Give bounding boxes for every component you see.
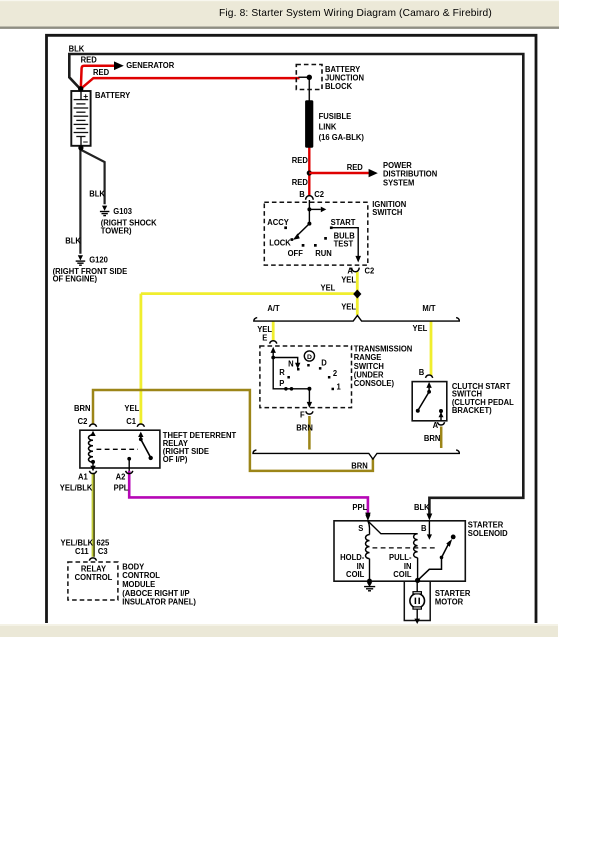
svg-text:RUN: RUN bbox=[315, 249, 332, 258]
svg-text:D: D bbox=[307, 354, 312, 361]
svg-text:(16 GA-BLK): (16 GA-BLK) bbox=[319, 133, 365, 142]
svg-text:G103: G103 bbox=[113, 207, 132, 216]
svg-text:BLK: BLK bbox=[69, 44, 85, 53]
svg-text:YEL/BLK: YEL/BLK bbox=[60, 483, 93, 492]
svg-text:RED: RED bbox=[292, 156, 308, 165]
svg-text:OF ENGINE): OF ENGINE) bbox=[53, 274, 98, 283]
svg-text:LINK: LINK bbox=[319, 122, 337, 131]
svg-text:Fig. 8: Starter System Wiring: Fig. 8: Starter System Wiring Diagram (C… bbox=[219, 8, 492, 19]
svg-text:A2: A2 bbox=[116, 472, 126, 481]
svg-text:S: S bbox=[358, 524, 363, 533]
svg-text:GENERATOR: GENERATOR bbox=[126, 61, 174, 70]
svg-text:YEL: YEL bbox=[341, 275, 356, 284]
svg-text:2: 2 bbox=[333, 369, 338, 378]
svg-text:COIL: COIL bbox=[393, 570, 411, 579]
svg-text:N: N bbox=[288, 359, 294, 368]
svg-text:1: 1 bbox=[336, 382, 341, 391]
svg-text:M/T: M/T bbox=[422, 304, 435, 313]
svg-text:COIL: COIL bbox=[346, 570, 364, 579]
svg-text:BLK: BLK bbox=[89, 189, 105, 198]
svg-text:BRN: BRN bbox=[74, 404, 91, 413]
svg-text:C2: C2 bbox=[364, 266, 374, 275]
svg-text:A1: A1 bbox=[78, 472, 88, 481]
svg-text:C11: C11 bbox=[75, 547, 89, 556]
svg-text:BLK: BLK bbox=[65, 236, 81, 245]
svg-text:RED: RED bbox=[81, 55, 97, 64]
svg-text:BLOCK: BLOCK bbox=[325, 82, 352, 91]
svg-text:ACCY: ACCY bbox=[267, 218, 289, 227]
svg-text:YEL: YEL bbox=[124, 404, 139, 413]
svg-text:LOCK: LOCK bbox=[269, 238, 291, 247]
svg-text:PPL: PPL bbox=[114, 483, 129, 492]
svg-text:TOWER): TOWER) bbox=[101, 226, 132, 235]
svg-text:CONSOLE): CONSOLE) bbox=[354, 379, 395, 388]
svg-text:C1: C1 bbox=[126, 417, 136, 426]
svg-text:RED: RED bbox=[93, 68, 109, 77]
svg-text:BATTERY: BATTERY bbox=[95, 91, 131, 100]
svg-text:BRACKET): BRACKET) bbox=[452, 406, 492, 415]
svg-text:SOLENOID: SOLENOID bbox=[468, 529, 508, 538]
svg-text:BRN: BRN bbox=[296, 423, 313, 432]
svg-text:SYSTEM: SYSTEM bbox=[383, 178, 415, 187]
svg-text:R: R bbox=[279, 368, 285, 377]
svg-text:A: A bbox=[433, 421, 439, 430]
svg-text:P: P bbox=[279, 379, 285, 388]
svg-text:C2: C2 bbox=[78, 417, 88, 426]
svg-text:BRN: BRN bbox=[424, 434, 441, 443]
svg-text:A: A bbox=[347, 266, 353, 275]
svg-text:B: B bbox=[299, 190, 305, 199]
svg-text:C2: C2 bbox=[314, 190, 324, 199]
svg-text:B: B bbox=[421, 524, 427, 533]
svg-text:INSULATOR PANEL): INSULATOR PANEL) bbox=[122, 597, 196, 606]
svg-text:YEL: YEL bbox=[413, 324, 428, 333]
svg-text:C3: C3 bbox=[98, 547, 108, 556]
svg-text:MOTOR: MOTOR bbox=[435, 597, 463, 606]
svg-text:A/T: A/T bbox=[267, 304, 279, 313]
svg-text:D: D bbox=[321, 358, 327, 367]
svg-text:FUSIBLE: FUSIBLE bbox=[319, 112, 352, 121]
svg-text:YEL: YEL bbox=[341, 302, 356, 311]
svg-text:BLK: BLK bbox=[414, 503, 430, 512]
svg-text:TEST: TEST bbox=[334, 239, 354, 248]
svg-text:−: − bbox=[83, 137, 88, 147]
svg-text:RED: RED bbox=[292, 178, 308, 187]
svg-text:CONTROL: CONTROL bbox=[75, 573, 113, 582]
svg-text:RED: RED bbox=[347, 163, 363, 172]
svg-text:PPL: PPL bbox=[352, 503, 367, 512]
svg-text:B: B bbox=[419, 368, 425, 377]
svg-text:YEL: YEL bbox=[321, 283, 336, 292]
svg-text:OF I/P): OF I/P) bbox=[163, 455, 188, 464]
svg-text:E: E bbox=[262, 333, 267, 342]
svg-text:START: START bbox=[331, 218, 356, 227]
svg-text:OFF: OFF bbox=[288, 249, 303, 258]
svg-text:G120: G120 bbox=[89, 255, 108, 264]
svg-text:SWITCH: SWITCH bbox=[372, 208, 402, 217]
svg-text:+: + bbox=[83, 91, 88, 101]
svg-text:F: F bbox=[300, 410, 305, 419]
svg-text:BRN: BRN bbox=[351, 461, 368, 470]
